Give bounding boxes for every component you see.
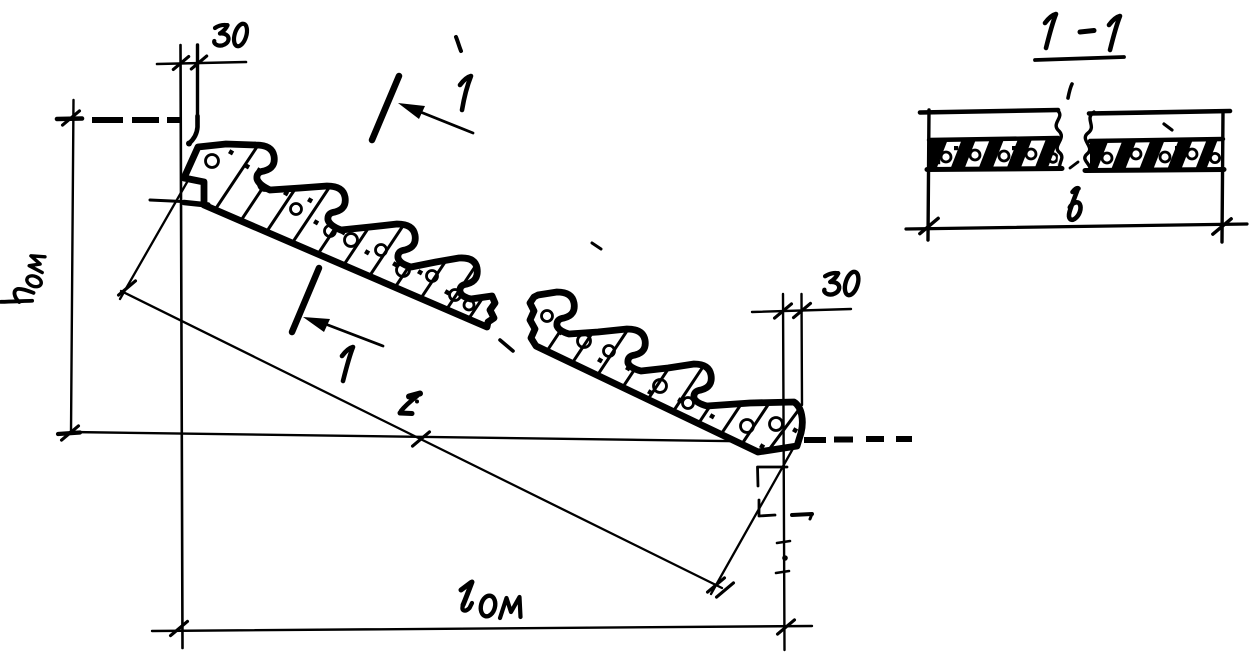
stair flight: left piece concrete hatch	[212, 135, 519, 324]
section 1-1: right plate outline	[1085, 111, 1230, 171]
dimension b: dimension line	[906, 224, 1247, 229]
dimension h_ом: bottom tick	[58, 426, 80, 440]
section 1-1: left extension line	[928, 110, 929, 240]
soffit overshoot below seating notch	[184, 203, 208, 206]
dimension l_ом: left tick	[171, 621, 188, 635]
stair flight: left piece (white fill)	[184, 144, 495, 327]
dimension 30 right: extension line long vertical	[783, 294, 785, 650]
stray break mark below gap	[500, 340, 513, 351]
stray mark above tread 6	[592, 243, 601, 249]
dimension h_ом: label	[1, 251, 47, 309]
stair flight: right piece (white fill)	[530, 292, 802, 452]
stray pen mark above section label	[456, 37, 461, 51]
section 1-1: small tick inside right plate	[1164, 124, 1172, 130]
dimension l: tick at crossing	[413, 432, 430, 446]
section cut 1 (lower): label 1	[342, 347, 353, 381]
right angle mark upper	[758, 467, 788, 486]
dimension 30 right: extension line short vertical	[800, 294, 803, 405]
lower landing floor level line	[70, 432, 795, 442]
stair flight: right piece outline	[530, 292, 802, 452]
section cut 1 (upper): arrow	[398, 103, 473, 133]
dimension 30 right: dimension line	[752, 309, 851, 312]
dimension h_ом: vertical dimension line	[71, 100, 74, 433]
dimension 30 top-left: tick at x=181	[173, 57, 188, 70]
stair flight: right piece pebbles	[542, 311, 799, 450]
small arrow dash right of bracket	[792, 514, 812, 519]
right angle mark lower	[759, 500, 775, 516]
section 1-1: left plate outline	[920, 110, 1062, 170]
dimension l: tick upper end	[119, 281, 136, 295]
small ticks on right extension line	[776, 541, 790, 573]
dimension l_ом: right tick	[778, 620, 795, 634]
dimension l_ом: dimension line	[152, 626, 812, 631]
dimension l: label (script l)	[400, 394, 420, 414]
stair flight: left piece outline	[184, 144, 495, 327]
dashed line: upper landing floor level	[92, 117, 182, 123]
section 1-1: title	[1045, 14, 1120, 50]
section 1-1: right plate mosaic band	[1090, 134, 1227, 175]
dimension 30 top-left: dimension line	[157, 62, 246, 64]
dimension 30 top-left: tick at x=199	[191, 56, 206, 69]
dimension l: ticks lower end	[708, 578, 734, 597]
dimension 30 top-left: value label	[214, 22, 249, 48]
dimension b: right tick	[1213, 219, 1231, 234]
dimension l_ом: label	[461, 582, 521, 618]
section cut 1 (upper): label 1	[460, 76, 471, 110]
section 1-1: right extension line	[1222, 112, 1223, 242]
extension line: stair top back edge vertical	[196, 45, 199, 122]
section 1-1: break mark above plate	[1068, 84, 1072, 98]
upper landing slab break hook	[186, 116, 198, 147]
section cut 1 (lower): thick stroke	[292, 268, 319, 332]
section 1-1: right plate body	[1085, 111, 1224, 171]
section 1-1: title underline	[1035, 57, 1124, 60]
section 1-1: left plate body	[929, 110, 1062, 170]
stair flight: left piece pebbles	[206, 149, 475, 321]
section 1-1: small tick in gap	[1070, 162, 1078, 168]
upper support seat level line	[150, 200, 182, 202]
dimension 30 right: value label	[824, 270, 861, 297]
section cut 1 (lower): arrow	[303, 317, 383, 346]
dimension h_ом: top tick	[57, 111, 82, 125]
dimension 30 right: ticks	[775, 303, 811, 318]
dimension l: extension line at lower end	[711, 445, 795, 594]
stair flight: right piece concrete hatch	[543, 276, 806, 455]
dimension l: extension line at upper end	[120, 177, 190, 299]
dimension b: label	[1069, 188, 1081, 220]
extension line: left vertical through upper support	[181, 45, 183, 648]
dashed line: lower landing level right of flight	[804, 439, 912, 440]
section 1-1: left plate mosaic band	[929, 134, 1068, 175]
dimension l: dimension line along slope	[121, 291, 722, 588]
section cut 1 (upper): thick stroke	[372, 76, 399, 140]
dimension b: left tick	[920, 218, 938, 233]
